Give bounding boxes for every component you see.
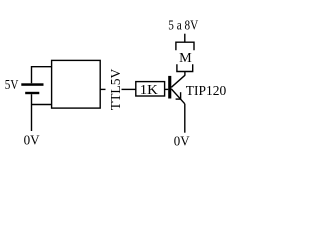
svg-text:5V: 5V [5,78,19,93]
svg-text:1K: 1K [140,83,158,98]
svg-text:0V: 0V [174,135,190,150]
svg-text:M: M [179,51,192,66]
svg-text:TTL5V: TTL5V [109,69,124,111]
svg-text:0V: 0V [24,134,40,149]
svg-text:TIP120: TIP120 [186,84,226,99]
svg-text:5 a 8V: 5 a 8V [168,19,198,34]
